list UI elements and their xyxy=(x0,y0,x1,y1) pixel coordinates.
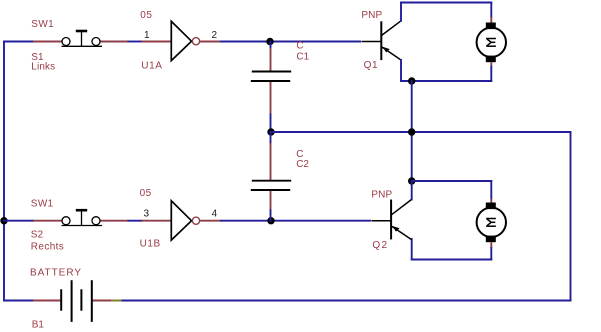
op-amp / inverter U1A xyxy=(171,21,199,60)
wire motor1 top drop xyxy=(490,3,492,18)
svg-text:Rechts: Rechts xyxy=(31,241,64,252)
capacitor C1 xyxy=(251,72,291,82)
wire motor2 top row xyxy=(412,180,492,182)
svg-text:SW1: SW1 xyxy=(31,19,54,30)
wire Q1 emitter vertical xyxy=(400,60,402,81)
wire C1 bottom to mid rail xyxy=(270,115,272,133)
wire row2 short blue segment xyxy=(129,220,142,222)
wire C2 bottom to row2 xyxy=(270,210,272,220)
svg-text:05: 05 xyxy=(140,10,152,21)
wire mid rail xyxy=(271,131,571,133)
node junction left bus row2 xyxy=(0,217,7,224)
motor M1 xyxy=(477,23,506,63)
wire right vertical bus xyxy=(570,132,572,301)
wire motor2 bottom drop xyxy=(490,248,492,260)
svg-text:S2: S2 xyxy=(31,229,44,240)
wire Q1 collector vertical xyxy=(400,3,402,21)
motor M2 xyxy=(477,203,506,243)
wire motor2 top lead xyxy=(490,199,492,204)
wire C2 bottom lead xyxy=(270,191,272,210)
transistor Q1 xyxy=(362,21,401,60)
wire U1B output lead xyxy=(200,220,221,222)
svg-text:3: 3 xyxy=(144,208,150,219)
wire U1B input lead xyxy=(142,220,172,222)
switch S1 xyxy=(62,31,103,46)
svg-text:U1B: U1B xyxy=(140,239,161,250)
wire C1 top stub xyxy=(270,42,272,49)
wire S1 left lead xyxy=(33,41,62,43)
wire U1A output to Q1 base xyxy=(221,41,360,43)
svg-text:BATTERY: BATTERY xyxy=(30,268,81,279)
svg-text:PNP: PNP xyxy=(371,189,392,200)
wire motor2 bottom lead xyxy=(490,242,492,248)
wire row1 short blue segment xyxy=(129,41,142,43)
wire C1 top lead xyxy=(270,48,272,71)
wire U1A input lead xyxy=(142,41,172,43)
node junction at C1 top xyxy=(266,38,273,45)
wire motor1 top lead xyxy=(490,17,492,24)
svg-text:Links: Links xyxy=(31,61,55,72)
svg-text:SW1: SW1 xyxy=(31,198,54,209)
capacitor C2 xyxy=(251,181,291,190)
node junction mid rail xyxy=(408,128,415,135)
svg-text:05: 05 xyxy=(140,188,152,199)
svg-text:B1: B1 xyxy=(32,320,45,331)
svg-text:C: C xyxy=(296,41,303,52)
svg-text:2: 2 xyxy=(212,30,218,41)
svg-text:Q2: Q2 xyxy=(372,240,387,251)
wire C1 bottom lead xyxy=(270,82,272,115)
wire S1 right lead xyxy=(101,41,129,43)
wire Q2 emitter vertical xyxy=(411,239,413,260)
wire Q2 collector vertical xyxy=(411,181,413,200)
switch S2 xyxy=(62,210,103,225)
wire motor2 top drop xyxy=(490,181,492,199)
wire motor1 bottom lead xyxy=(490,62,492,67)
wire C2 top lead xyxy=(270,143,272,180)
wire top rail xyxy=(401,2,491,4)
wire S2 left lead xyxy=(33,220,62,222)
wire row2 from left bus to S2 xyxy=(4,220,33,222)
svg-text:C1: C1 xyxy=(296,51,309,62)
svg-text:4: 4 xyxy=(212,208,218,219)
node junction motor2 top row xyxy=(408,177,415,184)
transistor Q2 xyxy=(372,200,411,240)
op-amp / inverter U1B xyxy=(171,201,199,240)
svg-text:1: 1 xyxy=(144,30,150,41)
wire U1A output lead xyxy=(200,41,221,43)
wire motor1 bottom drop xyxy=(490,67,492,81)
svg-text:C2: C2 xyxy=(296,159,309,170)
svg-text:Q1: Q1 xyxy=(364,60,378,71)
wire bottom rail right of battery xyxy=(122,300,571,302)
wire C2 top stub xyxy=(270,132,272,143)
node junction C1 bottom on mid rail xyxy=(267,128,274,135)
node junction C2 bottom xyxy=(267,217,274,224)
wire motor2 bottom row xyxy=(412,259,492,261)
wire battery right lead xyxy=(92,300,111,302)
wire motor1 bottom row xyxy=(401,80,491,82)
wire bottom rail left of battery xyxy=(4,300,33,302)
wire row1 from left bus to S1 xyxy=(4,41,33,43)
battery B1 xyxy=(61,281,92,321)
node junction emitter row xyxy=(408,77,415,84)
svg-text:U1A: U1A xyxy=(141,60,162,71)
wire S2 right lead xyxy=(101,220,129,222)
wire left vertical bus xyxy=(3,42,5,301)
svg-text:PNP: PNP xyxy=(361,10,382,21)
wire battery left lead xyxy=(33,300,61,302)
wire U1B output to Q2 base xyxy=(221,220,370,222)
wire mid column vertical xyxy=(411,81,413,181)
wire segment (olive) battery lead remnant xyxy=(111,300,122,302)
